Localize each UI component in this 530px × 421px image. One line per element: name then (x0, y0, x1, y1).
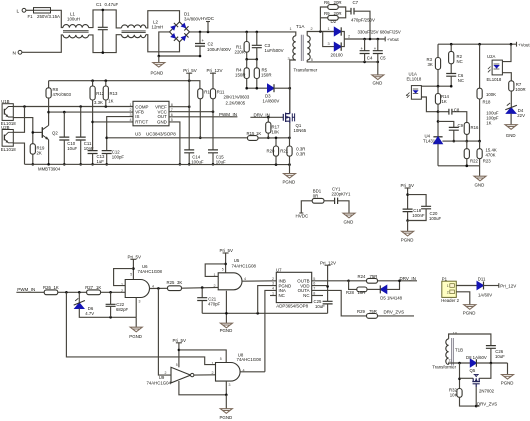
svg-text:1K: 1K (256, 131, 261, 136)
resistor R32 10K (457, 389, 462, 398)
GND pin wire (169, 122, 180, 164)
svg-text:1: 1 (214, 273, 216, 277)
svg-text:470K: 470K (486, 152, 496, 157)
svg-text:R13: R13 (110, 91, 118, 96)
bridge rectifier D1 3A/800V (170, 22, 190, 42)
svg-text:MMBT3904: MMBT3904 (38, 167, 61, 172)
svg-text:PWM_IN: PWM_IN (219, 112, 237, 117)
power ground PGND U5 (225, 313, 227, 323)
svg-text:R29: R29 (357, 309, 365, 314)
svg-text:5: 5 (313, 277, 315, 281)
svg-text:C4: C4 (367, 56, 373, 61)
svg-text:Transformer: Transformer (294, 68, 318, 73)
resistor R5 150R (256, 59, 258, 68)
svg-text:R26: R26 (43, 285, 51, 290)
wire U1B collector to COMP line (13, 106, 133, 108)
resistor R24 75R (349, 280, 367, 282)
wire U6 ground pin (135, 298, 137, 318)
svg-text:220pK/Y1: 220pK/Y1 (332, 191, 351, 196)
PWM controller U3 UC3843/SOP8 (133, 101, 169, 126)
resistor R7 100R (509, 81, 514, 91)
wire T1A secondary bottom rail (307, 60, 378, 62)
primary ground rail (25, 163, 290, 165)
svg-text:1: 1 (212, 361, 214, 365)
net label DRV_ZVS gate (476, 405, 479, 407)
current sense line (107, 137, 248, 139)
svg-text:2: 2 (214, 284, 216, 288)
wire T1B top to C26 (449, 334, 491, 346)
wire U6 pin1 loop (114, 269, 134, 286)
resistor R27 1K (87, 290, 101, 295)
svg-text:R23: R23 (483, 158, 491, 163)
capacitor C10 10uF (63, 112, 65, 137)
svg-text:1A/800V: 1A/800V (263, 98, 280, 103)
capacitor C13 1uF (88, 151, 98, 154)
svg-text:20100: 20100 (331, 53, 344, 58)
wire clamp to D3 (247, 87, 268, 89)
svg-text:+: + (202, 38, 205, 43)
wire L2 to bridge bottom (146, 35, 180, 52)
svg-text:R16: R16 (471, 125, 479, 130)
svg-text:NC: NC (303, 293, 309, 298)
svg-text:3: 3 (130, 113, 132, 117)
power ground PGND U6 (135, 317, 137, 327)
wire T1B bottom line (449, 363, 471, 365)
svg-text:3.3K: 3.3K (94, 100, 103, 105)
wire fuse to L1 (51, 10, 64, 27)
wire U1B emitter (13, 118, 33, 144)
common-mode choke L1 100uH (63, 25, 89, 28)
wire U9 input (158, 288, 171, 375)
svg-text:EL1018: EL1018 (407, 76, 422, 81)
svg-text:75R: 75R (370, 274, 378, 279)
and gate U5 74AHC1G08 (218, 273, 242, 290)
wire P1 pin2 to ground (456, 292, 470, 305)
capacitor CY1 220pK/Y1 (335, 198, 338, 204)
svg-text:74AHC1G08: 74AHC1G08 (232, 263, 257, 268)
PGND rail under bridge (159, 55, 200, 57)
optocoupler U1B EL1018 (2, 104, 13, 121)
power ground PGND U8 (225, 395, 227, 409)
wire L2 to bridge top (146, 11, 180, 28)
connector L (22, 8, 26, 12)
svg-text:R24: R24 (358, 274, 366, 279)
svg-text:UC3843/SOP8: UC3843/SOP8 (146, 131, 176, 136)
svg-text:PGND: PGND (283, 179, 296, 184)
svg-text:1K: 1K (442, 99, 447, 104)
power port +Vout right (516, 42, 518, 47)
svg-text:GND: GND (475, 183, 485, 188)
svg-text:12mH: 12mH (152, 25, 164, 30)
svg-text:R28: R28 (346, 290, 354, 295)
wire U9 ground (179, 381, 226, 395)
resistor R4 150R (246, 59, 248, 68)
resistor R17 10K (267, 117, 269, 122)
svg-text:EL1018: EL1018 (487, 77, 502, 82)
svg-text:2: 2 (311, 27, 313, 31)
svg-text:22V: 22V (517, 113, 525, 118)
ground GND D4 (505, 125, 517, 130)
svg-text:5: 5 (171, 118, 173, 122)
shunt regulator U4 TL431 (433, 136, 442, 138)
wire U8 output to U7 INA (265, 290, 276, 371)
Pri_5V rail (49, 81, 200, 89)
resistor R10 20K/1%/0603 (198, 89, 203, 99)
OUT wire PWM_IN (169, 116, 237, 118)
TL431 anode line (438, 165, 480, 167)
zener diode D6 4.7V (78, 292, 80, 303)
resistor R13 1K (105, 81, 107, 86)
svg-text:2: 2 (272, 277, 274, 281)
capacitor C11 10nF (80, 107, 82, 138)
svg-text:10uF: 10uF (67, 146, 77, 151)
resistor R22 15.4K (466, 141, 468, 149)
svg-text:T1B: T1B (455, 347, 463, 352)
zener diode D4 22V (506, 108, 516, 114)
resistor R23 470K (479, 141, 481, 149)
logic ground rail (202, 312, 327, 314)
reference line (454, 140, 480, 142)
wire U2A cathode to R7 (502, 73, 511, 81)
wire L to fuse (26, 9, 34, 11)
svg-text:470pF: 470pF (208, 302, 221, 307)
IS pin wire (107, 117, 133, 138)
transistor Q2 MMBT3904 (41, 127, 43, 138)
svg-text:DRV_ZVS: DRV_ZVS (477, 401, 497, 406)
svg-text:10uF: 10uF (315, 304, 325, 309)
svg-text:5: 5 (222, 267, 224, 271)
svg-text:C9: C9 (458, 123, 464, 128)
svg-text:+Vout: +Vout (518, 42, 530, 47)
svg-text:DRV_IN: DRV_IN (400, 276, 416, 281)
svg-text:Header 2: Header 2 (441, 298, 459, 303)
power ground PGND P1 (464, 305, 476, 310)
wire U7 NC right (312, 295, 323, 297)
svg-text:74AHC1G08: 74AHC1G08 (237, 357, 262, 362)
resistor R14 1K (437, 86, 439, 93)
resistor R11 2.2K/0805 (210, 89, 215, 99)
diode D11 1A/60V (477, 282, 484, 290)
capacitor C1 0.47uF (102, 10, 104, 27)
svg-text:U7: U7 (276, 267, 282, 272)
svg-text:75R: 75R (369, 309, 377, 314)
wire U5 output to U7 INB (242, 280, 276, 282)
transformer T1A primary winding (293, 36, 296, 60)
capacitor C15 10uF (208, 150, 218, 153)
svg-text:U2B: U2B (1, 125, 9, 130)
svg-text:1uF/500V: 1uF/500V (265, 48, 284, 53)
svg-text:6: 6 (171, 113, 173, 117)
svg-text:470pF/250V: 470pF/250V (351, 18, 375, 23)
svg-text:GND: GND (344, 219, 354, 224)
svg-text:1A/60V: 1A/60V (478, 292, 492, 297)
svg-text:PGND: PGND (220, 328, 233, 333)
capacitor C8 (438, 111, 449, 113)
VCC wire (169, 111, 213, 113)
svg-text:3: 3 (328, 42, 330, 46)
svg-text:PGND: PGND (151, 71, 164, 76)
mosfet Q1 10N65 (283, 112, 294, 123)
svg-text:100R: 100R (515, 87, 525, 92)
svg-text:OUT: OUT (158, 114, 168, 119)
power ground PGND bridge (158, 56, 160, 63)
resistor R18 100K (479, 44, 481, 88)
resistor R26 1K (44, 290, 58, 295)
svg-text:ADP3654/SOP8: ADP3654/SOP8 (276, 303, 308, 308)
resistor R19 2K (30, 144, 35, 155)
wire U8 output (240, 371, 265, 373)
svg-text:100uF: 100uF (429, 216, 442, 221)
svg-text:R21: R21 (280, 148, 288, 153)
diode D3 1A/800V (268, 84, 275, 92)
wire U8 ground pin (225, 381, 227, 395)
svg-text:10uF: 10uF (495, 354, 505, 359)
connector N (18, 50, 22, 54)
svg-text:N: N (13, 50, 17, 56)
resistor R15 1K (248, 136, 259, 141)
svg-text:F1: F1 (28, 14, 34, 19)
wire Pri_5V to U8 VCC (179, 350, 226, 363)
svg-text:Pri_5V: Pri_5V (401, 183, 415, 188)
capacitor C5 680uF/25V (377, 39, 379, 51)
svg-text:74AHC1G08: 74AHC1G08 (138, 269, 163, 274)
net label HVDC (207, 22, 209, 32)
power ground PGND decoupling (407, 221, 409, 232)
svg-text:T1A: T1A (296, 24, 305, 29)
wire T1A secondary top (307, 32, 334, 36)
svg-text:1: 1 (130, 103, 132, 107)
svg-text:10K: 10K (450, 392, 458, 397)
svg-text:3A/800V: 3A/800V (184, 17, 201, 22)
svg-text:2: 2 (121, 289, 123, 293)
svg-text:0.47uF: 0.47uF (105, 2, 119, 7)
resistor BD1 0R (312, 198, 324, 203)
svg-text:U1B: U1B (1, 99, 9, 104)
diode D8 1A/60V (470, 359, 476, 367)
svg-text:RT/CT: RT/CT (135, 120, 148, 125)
svg-text:100uF: 100uF (191, 160, 204, 165)
svg-text:R20: R20 (267, 148, 275, 153)
svg-text:C8: C8 (454, 107, 460, 112)
svg-text:R27: R27 (85, 285, 93, 290)
capacitor C21 470pF (201, 288, 203, 298)
svg-text:10uF: 10uF (216, 160, 226, 165)
svg-text:1K: 1K (108, 98, 113, 103)
capacitor C20 100uF (408, 195, 427, 207)
svg-text:U2A: U2A (487, 54, 495, 59)
svg-text:Q2: Q2 (52, 130, 58, 135)
svg-text:C7: C7 (353, 0, 359, 5)
power ground PGND primary (289, 165, 291, 174)
resistor R3 3K (437, 44, 439, 57)
svg-text:NC: NC (279, 293, 285, 298)
svg-text:100uH: 100uH (67, 17, 80, 22)
net label DRV_IN gate (250, 116, 283, 118)
svg-text:220K: 220K (235, 49, 245, 54)
svg-text:2: 2 (447, 290, 449, 294)
wire R6 R9 right join (338, 7, 346, 18)
optocoupler U1A EL1018 (411, 86, 421, 100)
wire Q5 source branch (459, 363, 461, 389)
and gate U8 74AHC1G08 (216, 363, 241, 382)
svg-text:100nF: 100nF (412, 213, 425, 218)
wire U7 PGND pin (258, 286, 277, 314)
svg-text:2.2K/0805: 2.2K/0805 (226, 101, 246, 106)
svg-text:2N7002: 2N7002 (479, 389, 495, 394)
wire U9 output to U8 (194, 374, 216, 376)
svg-text:R18: R18 (483, 100, 491, 105)
resistor R8 47K/0603 (48, 81, 50, 88)
svg-text:1: 1 (328, 27, 330, 31)
svg-text:PGND: PGND (220, 415, 233, 420)
svg-text:3: 3 (272, 282, 274, 286)
capacitor C22 682pF (110, 292, 112, 304)
svg-text:682pF: 682pF (116, 307, 129, 312)
wire U2A anode (502, 44, 511, 61)
svg-text:1: 1 (447, 284, 449, 288)
svg-text:47K/0603: 47K/0603 (53, 92, 72, 97)
svg-text:D5 1N4148: D5 1N4148 (380, 295, 402, 300)
svg-text:250V/3.15A: 250V/3.15A (37, 14, 60, 19)
inverter U9 74AHC1G04 (171, 367, 191, 383)
svg-text:10K: 10K (272, 129, 280, 134)
wire R12 to RT/CT and C13 (92, 100, 94, 151)
svg-text:3K: 3K (428, 62, 433, 67)
wire PWM feedback to U8 (66, 292, 215, 364)
svg-text:5: 5 (176, 363, 178, 367)
wire U2B collector to COMP (13, 107, 24, 133)
svg-text:D11: D11 (478, 277, 486, 282)
svg-text:4.7V: 4.7V (85, 311, 94, 316)
transformer T1B winding (446, 339, 449, 365)
svg-text:R25: R25 (167, 280, 175, 285)
svg-text:150R: 150R (235, 73, 246, 78)
svg-text:100pF: 100pF (112, 154, 125, 159)
svg-text:1K: 1K (96, 285, 101, 290)
optocoupler U2B EL1018 (2, 130, 13, 147)
svg-text:0R: 0R (313, 193, 319, 198)
capacitor C18 100nF (403, 209, 413, 212)
wire TL431 cathode (437, 112, 439, 137)
svg-text:EL1018: EL1018 (1, 147, 16, 152)
ground GND output (377, 62, 379, 75)
svg-text:C5: C5 (380, 56, 386, 61)
power port +Vout (384, 37, 386, 42)
wire U6 output (150, 287, 168, 289)
wire U7 VDD (312, 285, 328, 287)
transformer T1A core (301, 35, 303, 61)
snubber resistor R6 20R (320, 7, 327, 32)
svg-text:D2: D2 (331, 19, 337, 24)
svg-text:1: 1 (290, 27, 292, 31)
node Q2 base (32, 131, 35, 134)
common-mode choke L2 12mH (122, 25, 146, 28)
resistor R12 3.3K (92, 81, 94, 86)
resistor R1 220K (246, 32, 248, 42)
svg-text:4: 4 (130, 118, 132, 122)
wire Q1 drain (289, 88, 291, 112)
capacitor C12 100pF (106, 138, 108, 151)
resistor R20 0.3R (275, 138, 277, 146)
svg-text:20R: 20R (334, 11, 342, 16)
resistor R16 (464, 122, 469, 134)
gate driver U7 ADP3654/SOP8 (276, 272, 311, 302)
transformer T1A secondary winding (307, 36, 310, 60)
wire R8 to Q2 collector / VFB tee (48, 98, 50, 125)
wire L1 to bottom rail (89, 35, 122, 53)
optocoupler U2A EL1018 (492, 60, 502, 75)
and gate U6 74AHC1G08 (125, 280, 149, 298)
svg-text:PGND: PGND (501, 381, 514, 386)
svg-text:R15: R15 (247, 131, 255, 136)
dual diode D2 20100 (323, 31, 335, 33)
ground GND CY1 (343, 213, 355, 218)
capacitor C6 NC (446, 74, 456, 77)
HVDC rail (190, 32, 296, 36)
svg-text:3K: 3K (177, 280, 182, 285)
resistor R28 10R (349, 281, 357, 290)
resistor R21 0.3R (289, 138, 291, 146)
wire U1A cathode (421, 97, 438, 112)
svg-text:5: 5 (130, 272, 132, 276)
resistor R29 75R (367, 314, 378, 319)
svg-text:TL431: TL431 (423, 138, 436, 143)
resistor R2 NC (450, 44, 452, 51)
svg-text:HVDC: HVDC (201, 16, 215, 21)
svg-text:NC: NC (458, 78, 464, 83)
svg-text:2: 2 (348, 35, 350, 39)
power port Pri_12V input (498, 283, 500, 288)
fuse F1 250V/3.15A (34, 8, 51, 13)
transformer T1B core (452, 338, 454, 366)
svg-text:20R: 20R (334, 0, 342, 5)
svg-text:10N65: 10N65 (294, 128, 307, 133)
VFB line (49, 111, 133, 113)
svg-text:GND: GND (506, 133, 516, 138)
svg-text:GND: GND (157, 120, 167, 125)
svg-text:10R: 10R (358, 290, 366, 295)
svg-text:R6: R6 (324, 0, 330, 5)
wire U7 OUTB (312, 280, 349, 282)
svg-text:PGND: PGND (401, 237, 414, 242)
svg-text:1K: 1K (54, 285, 59, 290)
svg-text:2: 2 (130, 108, 132, 112)
+Vout rail (365, 38, 386, 40)
wire U7 OUTA (312, 290, 367, 316)
svg-text:4: 4 (272, 287, 274, 291)
svg-text:D8 1A/60V: D8 1A/60V (466, 355, 487, 360)
svg-text:Pri_5V: Pri_5V (173, 338, 187, 343)
svg-text:5: 5 (220, 357, 222, 361)
svg-text:100uF/400V: 100uF/400V (207, 47, 231, 52)
svg-text:Pri_12V: Pri_12V (207, 68, 223, 73)
svg-text:Pri_5V: Pri_5V (183, 68, 197, 73)
svg-text:Pri_12V: Pri_12V (500, 284, 516, 289)
capacitor C2 100uF/400V (199, 32, 201, 44)
mosfet Q5 2N7002 (460, 377, 474, 379)
snubber resistor R9 20R (320, 17, 327, 19)
svg-text:HVDC: HVDC (296, 213, 310, 218)
svg-text:R22: R22 (470, 158, 478, 163)
svg-text:P1: P1 (442, 276, 448, 281)
svg-text:IS: IS (135, 114, 139, 119)
svg-text:3: 3 (229, 383, 231, 387)
capacitor C3 1uF/500V (256, 32, 258, 45)
VREF wire to Pri_5V (169, 106, 189, 108)
svg-text:PGND: PGND (129, 334, 142, 339)
svg-text:L: L (17, 8, 20, 14)
svg-text:0.3R: 0.3R (296, 152, 305, 157)
